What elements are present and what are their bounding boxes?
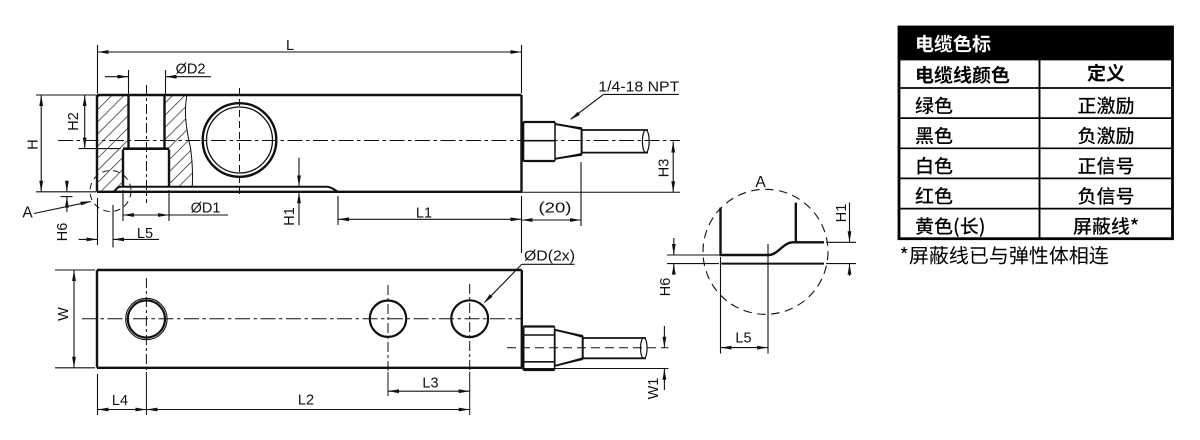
svg-text:L4: L4 <box>112 393 128 409</box>
svg-text:L5: L5 <box>137 226 153 242</box>
svg-text:L5: L5 <box>735 331 751 347</box>
svg-text:H6: H6 <box>55 223 71 242</box>
svg-text:L: L <box>286 38 294 54</box>
svg-text:W1: W1 <box>646 378 662 400</box>
svg-text:ØD1: ØD1 <box>191 201 221 217</box>
svg-text:A: A <box>755 174 766 191</box>
svg-text:1/4-18 NPT: 1/4-18 NPT <box>598 80 679 96</box>
svg-text:H2: H2 <box>66 112 82 131</box>
svg-text:W: W <box>56 307 72 321</box>
svg-text:H1: H1 <box>282 207 298 226</box>
svg-text:H: H <box>26 139 42 149</box>
svg-text:L2: L2 <box>298 393 314 409</box>
svg-text:L3: L3 <box>422 376 438 392</box>
svg-text:A: A <box>22 205 33 222</box>
svg-text:H3: H3 <box>657 159 673 178</box>
svg-text:ØD2: ØD2 <box>176 62 206 78</box>
svg-text:H6: H6 <box>658 278 674 297</box>
svg-text:L1: L1 <box>416 206 432 222</box>
svg-text:(20): (20) <box>539 201 572 217</box>
svg-text:ØD(2x): ØD(2x) <box>524 248 575 264</box>
svg-text:H1: H1 <box>834 204 850 223</box>
